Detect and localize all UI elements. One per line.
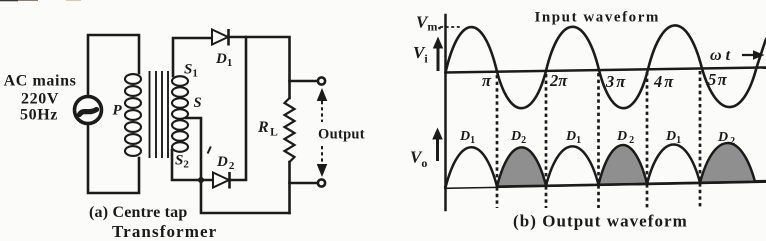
svg-text:4π: 4π	[653, 72, 675, 91]
svg-text:D2: D2	[717, 130, 735, 147]
svg-text:5π: 5π	[708, 70, 728, 89]
svg-text:D2: D2	[510, 129, 526, 146]
svg-text:D1: D1	[215, 51, 232, 69]
svg-text:(a) Centre tap: (a) Centre tap	[89, 204, 187, 221]
svg-text:D1: D1	[665, 129, 681, 146]
svg-text:Vo: Vo	[410, 148, 427, 171]
svg-text:Transformer: Transformer	[112, 222, 217, 241]
svg-text:2π: 2π	[549, 71, 568, 90]
svg-text:ωt: ωt	[710, 47, 731, 64]
svg-text:S: S	[194, 95, 202, 111]
svg-text:50Hz: 50Hz	[20, 107, 58, 124]
svg-text:220V: 220V	[21, 91, 59, 108]
svg-text:D1: D1	[459, 129, 475, 146]
svg-text:RL: RL	[257, 119, 278, 139]
svg-text:π: π	[482, 71, 492, 90]
svg-text:Vi: Vi	[413, 43, 428, 66]
svg-text:S2: S2	[175, 153, 189, 171]
svg-text:D2: D2	[216, 154, 235, 172]
svg-text:AC mains: AC mains	[4, 73, 77, 90]
svg-text:P: P	[113, 103, 123, 119]
svg-text:S1: S1	[184, 62, 198, 80]
svg-text:Vm.: Vm.	[416, 13, 442, 34]
svg-text:3π: 3π	[605, 72, 627, 91]
svg-text:Output: Output	[318, 127, 365, 143]
svg-text:D2: D2	[616, 129, 634, 146]
svg-text:D1: D1	[565, 129, 581, 146]
svg-text:Input waveform: Input waveform	[535, 10, 660, 26]
svg-text:(b) Output waveform: (b) Output waveform	[513, 212, 688, 231]
